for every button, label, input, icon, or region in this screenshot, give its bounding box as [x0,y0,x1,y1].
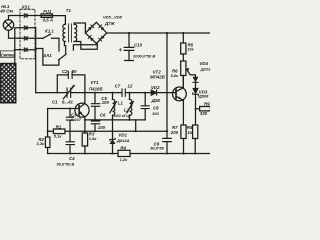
svg-text:С4: С4 [69,156,75,161]
capacitor C4 [69,131,71,141]
svg-text:50,0*50: 50,0*50 [150,146,165,151]
svg-text:f=60 кГц: f=60 кГц [113,113,130,118]
zener VD1 [112,120,114,139]
svg-text:30: 30 [72,69,77,74]
wire secondary top to bridge [74,23,85,33]
svg-text:VD4: VD4 [199,61,208,66]
diode VD7 [88,36,94,42]
svg-text:5,1к: 5,1к [54,134,63,139]
svg-text:С10: С10 [134,43,143,48]
diode VD4 [193,77,198,82]
potentiometer R6 [181,61,186,76]
switch SA1 [59,42,66,60]
transformer T1 secondary winding [74,24,77,41]
relay contact K1.1 [43,34,59,51]
capacitor C9 [163,138,171,141]
diode VD5 [88,25,94,31]
resistor R4 [118,150,130,156]
contact XS1.3 [20,37,35,40]
wire fuse to T1 primary top [53,16,66,25]
transistor VT1 [75,103,89,117]
bottom rail [48,153,210,155]
svg-text:R4: R4 [120,145,126,150]
svg-text:Т1: Т1 [66,8,72,13]
main oscillator wire y92.6 [36,92,176,94]
inductor L2 [129,93,131,100]
svg-text:5,6к: 5,6к [171,73,180,78]
wire SA1 loop [36,49,59,66]
wire contact3 to K1.1 [35,37,43,39]
svg-text:VD2: VD2 [151,85,160,90]
svg-text:VD5...VD8: VD5...VD8 [103,14,123,19]
svg-text:1,8к: 1,8к [89,136,98,141]
svg-text:К1.1: К1.1 [45,29,54,34]
main bias wire y131.3 [48,130,168,132]
wire bridge minus stub [73,44,96,51]
svg-text:1к: 1к [187,130,192,135]
bias vertical x47.6 [47,109,49,138]
wire contact2 down trunk [34,28,37,93]
svg-text:Д223: Д223 [200,67,210,72]
svg-text:Д7Ж: Д7Ж [104,21,116,26]
variable capacitor C1 [67,88,71,97]
svg-text:VT1: VT1 [90,80,99,85]
wiper arm R6 [186,69,195,77]
svg-text:1,2к: 1,2к [120,157,129,162]
contact XS1.1 [20,14,35,17]
wire to R9 [196,108,200,110]
contact XS1.2 [20,26,35,29]
fuse FU1 [41,14,52,18]
top supply rail [107,32,210,34]
wire lamp bottom [9,30,21,38]
svg-text:R1: R1 [56,124,62,129]
svg-text:С6: С6 [100,113,106,118]
resistor R2 [45,137,50,148]
svg-text:L1: L1 [118,101,124,106]
svg-text:МП42Б: МП42Б [150,74,165,79]
svg-text:Сетка: Сетка [1,53,15,58]
svg-text:100: 100 [102,100,110,105]
resistor R7 [181,125,186,139]
bridge rectifier VD5...VD8 [85,22,106,43]
tank bottom tie wire [85,119,145,121]
resistor R1 [53,129,65,134]
zener VD3 [193,88,199,94]
lamp HL1 [3,20,13,30]
svg-text:С1: С1 [52,99,58,104]
tie drop wire [135,120,137,131]
svg-text:Д814А: Д814А [116,138,130,143]
svg-text:П416Б: П416Б [89,86,103,91]
svg-text:10к: 10к [187,47,194,52]
svg-text:2000,0*50 В: 2000,0*50 В [132,54,155,59]
svg-text:3,3к: 3,3к [36,141,45,146]
svg-text:R9: R9 [204,102,210,107]
resistor R3 [82,133,87,146]
svg-text:Д808: Д808 [198,94,209,99]
diode VD2 [151,90,156,95]
label grid frame [0,51,14,57]
capacitor C10 [128,33,130,47]
svg-text:С2: С2 [62,69,68,74]
svg-text:0,047: 0,047 [71,117,82,122]
svg-text:12: 12 [127,84,132,89]
resistor R9 [200,107,211,111]
diode VD8 [99,35,105,41]
wire contact1 to fuse [35,15,41,17]
capacitor C7 [122,89,125,96]
svg-text:100: 100 [98,125,106,130]
wire grid riser [15,28,20,64]
wire lamp top to XS1 [9,16,21,20]
capacitor C8 [144,93,146,106]
inductor L1 [112,93,114,100]
contact XS1.4 [20,48,35,51]
diode VD6 [99,25,105,31]
capacitors C5 C6 chain [94,93,96,104]
svg-text:6...41: 6...41 [62,99,74,104]
transformer T1 core [69,24,72,42]
svg-text:С7: С7 [115,84,121,89]
base wire VT1 [48,108,80,110]
svg-text:FU1: FU1 [43,9,52,14]
svg-text:L2: L2 [124,107,130,112]
capacitor C3 [69,109,71,118]
capacitor C2 branch [57,75,85,93]
grid box [1,64,16,103]
svg-text:40 Ом: 40 Ом [0,9,14,14]
svg-text:0,5 А: 0,5 А [43,18,54,23]
transistor VT2 [173,87,187,101]
resistor R8 [193,125,198,139]
vertical feed wire x167 [166,33,168,154]
svg-text:200: 200 [170,130,179,135]
wire secondary bottom to bridge [74,42,97,50]
svg-text:330: 330 [200,111,208,116]
svg-text:100: 100 [152,111,159,116]
svg-text:XS1: XS1 [21,5,31,10]
svg-text:50,0*50 В: 50,0*50 В [57,161,75,166]
svg-text:SA1: SA1 [43,53,52,58]
svg-text:Д2Е: Д2Е [151,98,162,103]
connector XS1 [20,9,35,59]
resistor R5 [182,33,184,43]
wire contact4 left [15,49,20,51]
transformer T1 primary winding [63,24,66,41]
